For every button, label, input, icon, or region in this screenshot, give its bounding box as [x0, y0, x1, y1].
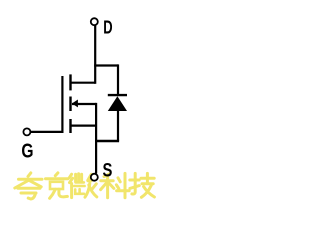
svg-text:S: S [103, 158, 113, 181]
source terminal circle [91, 174, 98, 181]
wire: diode vertical bottom [117, 111, 119, 142]
wire: drain vertical [94, 25, 96, 84]
channel segment (body, middle) [69, 97, 71, 112]
wire: source channel to source vertical [70, 124, 96, 126]
wire: diode branch top [94, 64, 118, 66]
wire: diode vertical top [117, 64, 119, 94]
channel segment (drain side) [69, 74, 71, 90]
wire: source vertical down to terminal [95, 103, 97, 174]
watermark char 科 [101, 173, 130, 197]
diode D1: cathode bar [108, 94, 127, 96]
svg-text:D: D [103, 18, 112, 38]
watermark text 夸克微科技 (yellow, drawn as strokes) [15, 173, 155, 199]
watermark char 克 [46, 173, 69, 198]
watermark char 夸 [15, 173, 42, 199]
wire: diode branch bottom [95, 140, 119, 142]
wire: drain channel to drain vertical [70, 82, 95, 84]
diode D1: anode triangle [108, 96, 127, 111]
channel segment (source side) [69, 119, 71, 133]
watermark char 技 [130, 173, 155, 197]
wire: gate terminal to gate line [31, 131, 64, 133]
svg-text:G: G [21, 140, 33, 162]
watermark char 微 [69, 174, 96, 198]
gate line [61, 76, 63, 132]
drain terminal circle [91, 18, 98, 25]
schematic: N-channel MOSFET with body diode [31, 25, 120, 173]
wire: body to source vertical [72, 103, 96, 105]
body arrow (pointing to channel) [72, 100, 78, 108]
gate terminal circle [23, 128, 30, 135]
